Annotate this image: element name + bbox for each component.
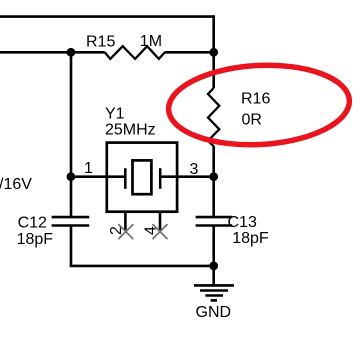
wire right vertical upper [212, 15, 215, 88]
svg-text:1: 1 [84, 160, 93, 177]
crystal Y1 inner rectangle [133, 160, 152, 194]
wire right vertical lower [212, 225, 215, 284]
wire pin 1 [71, 175, 126, 178]
wire between R15 and right vertical [165, 51, 214, 54]
capacitor C12 bottom plate [52, 224, 90, 227]
wire left vertical lower [70, 225, 73, 266]
wire bottom horizontal [70, 265, 214, 268]
junction dot right pin3 [209, 172, 218, 181]
wire left vertical upper [70, 52, 73, 217]
capacitor C13 top plate [196, 216, 233, 219]
resistor R16 [208, 88, 219, 146]
pin 4 stub [159, 212, 162, 230]
svg-text:0R: 0R [242, 111, 262, 128]
svg-text:25MHz: 25MHz [105, 121, 156, 138]
crystal Y1 body box [107, 143, 177, 212]
junction dot right top [209, 48, 218, 57]
svg-text:1M: 1M [140, 33, 162, 50]
resistor R15 [105, 46, 166, 59]
wire left horizontal [0, 51, 105, 54]
capacitor C13 bottom plate [196, 224, 233, 227]
wire pin 3 [160, 175, 214, 178]
no-connect X pin 4 [153, 224, 168, 239]
crystal Y1 right plate [159, 168, 162, 189]
svg-text:3: 3 [190, 161, 199, 178]
svg-text:C13: C13 [228, 214, 257, 231]
svg-text:18pF: 18pF [232, 230, 269, 247]
ground symbol [194, 285, 234, 300]
svg-text:GND: GND [196, 304, 232, 321]
svg-text:C12: C12 [18, 214, 47, 231]
capacitor C12 top plate [52, 216, 90, 219]
svg-text:R16: R16 [241, 91, 270, 108]
svg-text:/16V: /16V [0, 176, 32, 193]
crystal Y1 left plate [124, 168, 127, 189]
wire right vertical middle [212, 146, 215, 218]
pin 2 stub [124, 212, 127, 230]
no-connect X pin 2 [118, 224, 133, 239]
svg-text:R15: R15 [86, 33, 115, 50]
junction dot left pin1 [67, 172, 76, 181]
junction dot bottom [209, 262, 218, 271]
svg-text:18pF: 18pF [17, 231, 54, 248]
red annotation ellipse around R16 [167, 61, 352, 149]
svg-text:Y1: Y1 [105, 105, 125, 122]
wire top horizontal [0, 15, 214, 18]
junction dot left top [67, 48, 76, 57]
